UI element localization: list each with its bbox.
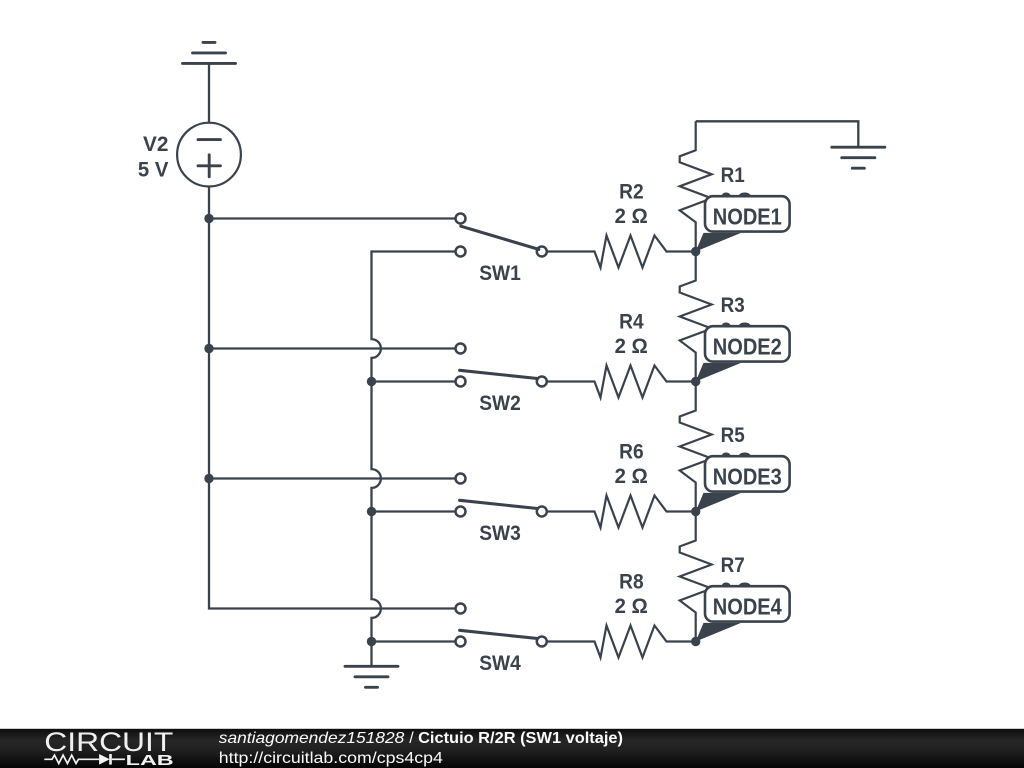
node NODE2 flag — [696, 326, 790, 381]
svg-text:R6: R6 — [619, 441, 644, 464]
switch SW2 — [456, 344, 547, 387]
wire middle rail to SW4 bottom contact — [372, 640, 461, 642]
junction dot (209,478.5) — [204, 474, 213, 483]
svg-text:R5: R5 — [721, 424, 745, 447]
svg-text:santiagomendez151828: santiagomendez151828 — [219, 730, 405, 747]
svg-text:NODE1: NODE1 — [713, 203, 782, 229]
svg-text:NODE3: NODE3 — [713, 463, 782, 489]
svg-text:SW3: SW3 — [479, 522, 521, 545]
junction dot (695.7,641.5) — [691, 637, 700, 646]
switch SW1 — [456, 214, 547, 257]
node NODE4 flag — [696, 586, 790, 641]
wire left rail to SW2 top contact — [209, 347, 461, 349]
junction dot (209,348.5) — [204, 344, 213, 353]
junction dot (695.7,511.5) — [691, 507, 700, 516]
svg-text:R1: R1 — [721, 164, 745, 187]
CircuitLab logo resistor-diode glyph — [44, 754, 125, 765]
svg-text:R4: R4 — [619, 311, 644, 334]
resistor R8 (with lead wire from SW4 pole) — [547, 626, 696, 658]
svg-text:SW4: SW4 — [479, 652, 521, 675]
resistor R3 (vertical) — [680, 252, 712, 382]
wire R1 top to ground — [696, 121, 859, 147]
wire left rail to SW3 top contact — [209, 477, 461, 479]
junction dot (371.5,381.5) — [367, 377, 376, 386]
node NODE3 flag — [696, 456, 790, 511]
resistor R4 (with lead wire from SW2 pole) — [547, 366, 696, 398]
svg-text:/: / — [409, 730, 414, 747]
ground (top right) — [832, 147, 885, 168]
svg-text:R7: R7 — [721, 554, 745, 577]
wire left rail to SW1 top contact — [209, 217, 461, 219]
svg-text:NODE4: NODE4 — [713, 593, 782, 619]
junction dot (209,218.5) — [204, 214, 213, 223]
resistor R1 (vertical) — [680, 121, 712, 251]
svg-text:SW1: SW1 — [479, 262, 521, 285]
node NODE1 flag — [696, 196, 790, 251]
wire middle rail to SW3 bottom contact — [372, 510, 461, 512]
svg-text:NODE2: NODE2 — [713, 333, 782, 359]
ground (top, above V2, flipped) — [183, 42, 236, 63]
junction dot (695.7,381.5) — [691, 377, 700, 386]
wire V2 top terminal to ground — [208, 63, 210, 123]
wire middle rail (SW bottom contacts to ground) with crossover hops — [372, 252, 461, 667]
svg-text:R8: R8 — [619, 571, 644, 594]
resistor R2 (with lead wire from SW1 pole) — [547, 236, 696, 268]
voltage source V2 — [177, 123, 241, 187]
svg-text:2 Ω: 2 Ω — [615, 595, 648, 618]
switch SW4 — [456, 604, 547, 647]
wire left rail from V2 down to SW4 top contact — [209, 187, 461, 609]
junction dot (371.5,641.5) — [367, 637, 376, 646]
svg-text:R2: R2 — [619, 181, 644, 204]
svg-text:2 Ω: 2 Ω — [615, 465, 648, 488]
switch SW3 — [456, 474, 547, 517]
svg-text:Cictuio R/2R (SW1 voltaje): Cictuio R/2R (SW1 voltaje) — [418, 730, 623, 747]
svg-text:R3: R3 — [721, 294, 745, 317]
svg-text:SW2: SW2 — [479, 392, 521, 415]
svg-text:LAB: LAB — [126, 753, 174, 768]
resistor R6 (with lead wire from SW3 pole) — [547, 496, 696, 528]
svg-text:5 V: 5 V — [138, 158, 169, 181]
ground (bottom) — [345, 666, 398, 687]
svg-text:2 Ω: 2 Ω — [615, 205, 648, 228]
svg-text:2 Ω: 2 Ω — [615, 335, 648, 358]
wire middle rail to SW2 bottom contact — [372, 380, 461, 382]
junction dot (695.7,251.5) — [691, 247, 700, 256]
resistor R5 (vertical) — [680, 382, 712, 512]
svg-text:http://circuitlab.com/cps4cp4: http://circuitlab.com/cps4cp4 — [219, 750, 443, 767]
resistor R7 (vertical) — [680, 512, 712, 642]
junction dot (371.5,511.5) — [367, 507, 376, 516]
svg-text:V2: V2 — [143, 133, 168, 156]
